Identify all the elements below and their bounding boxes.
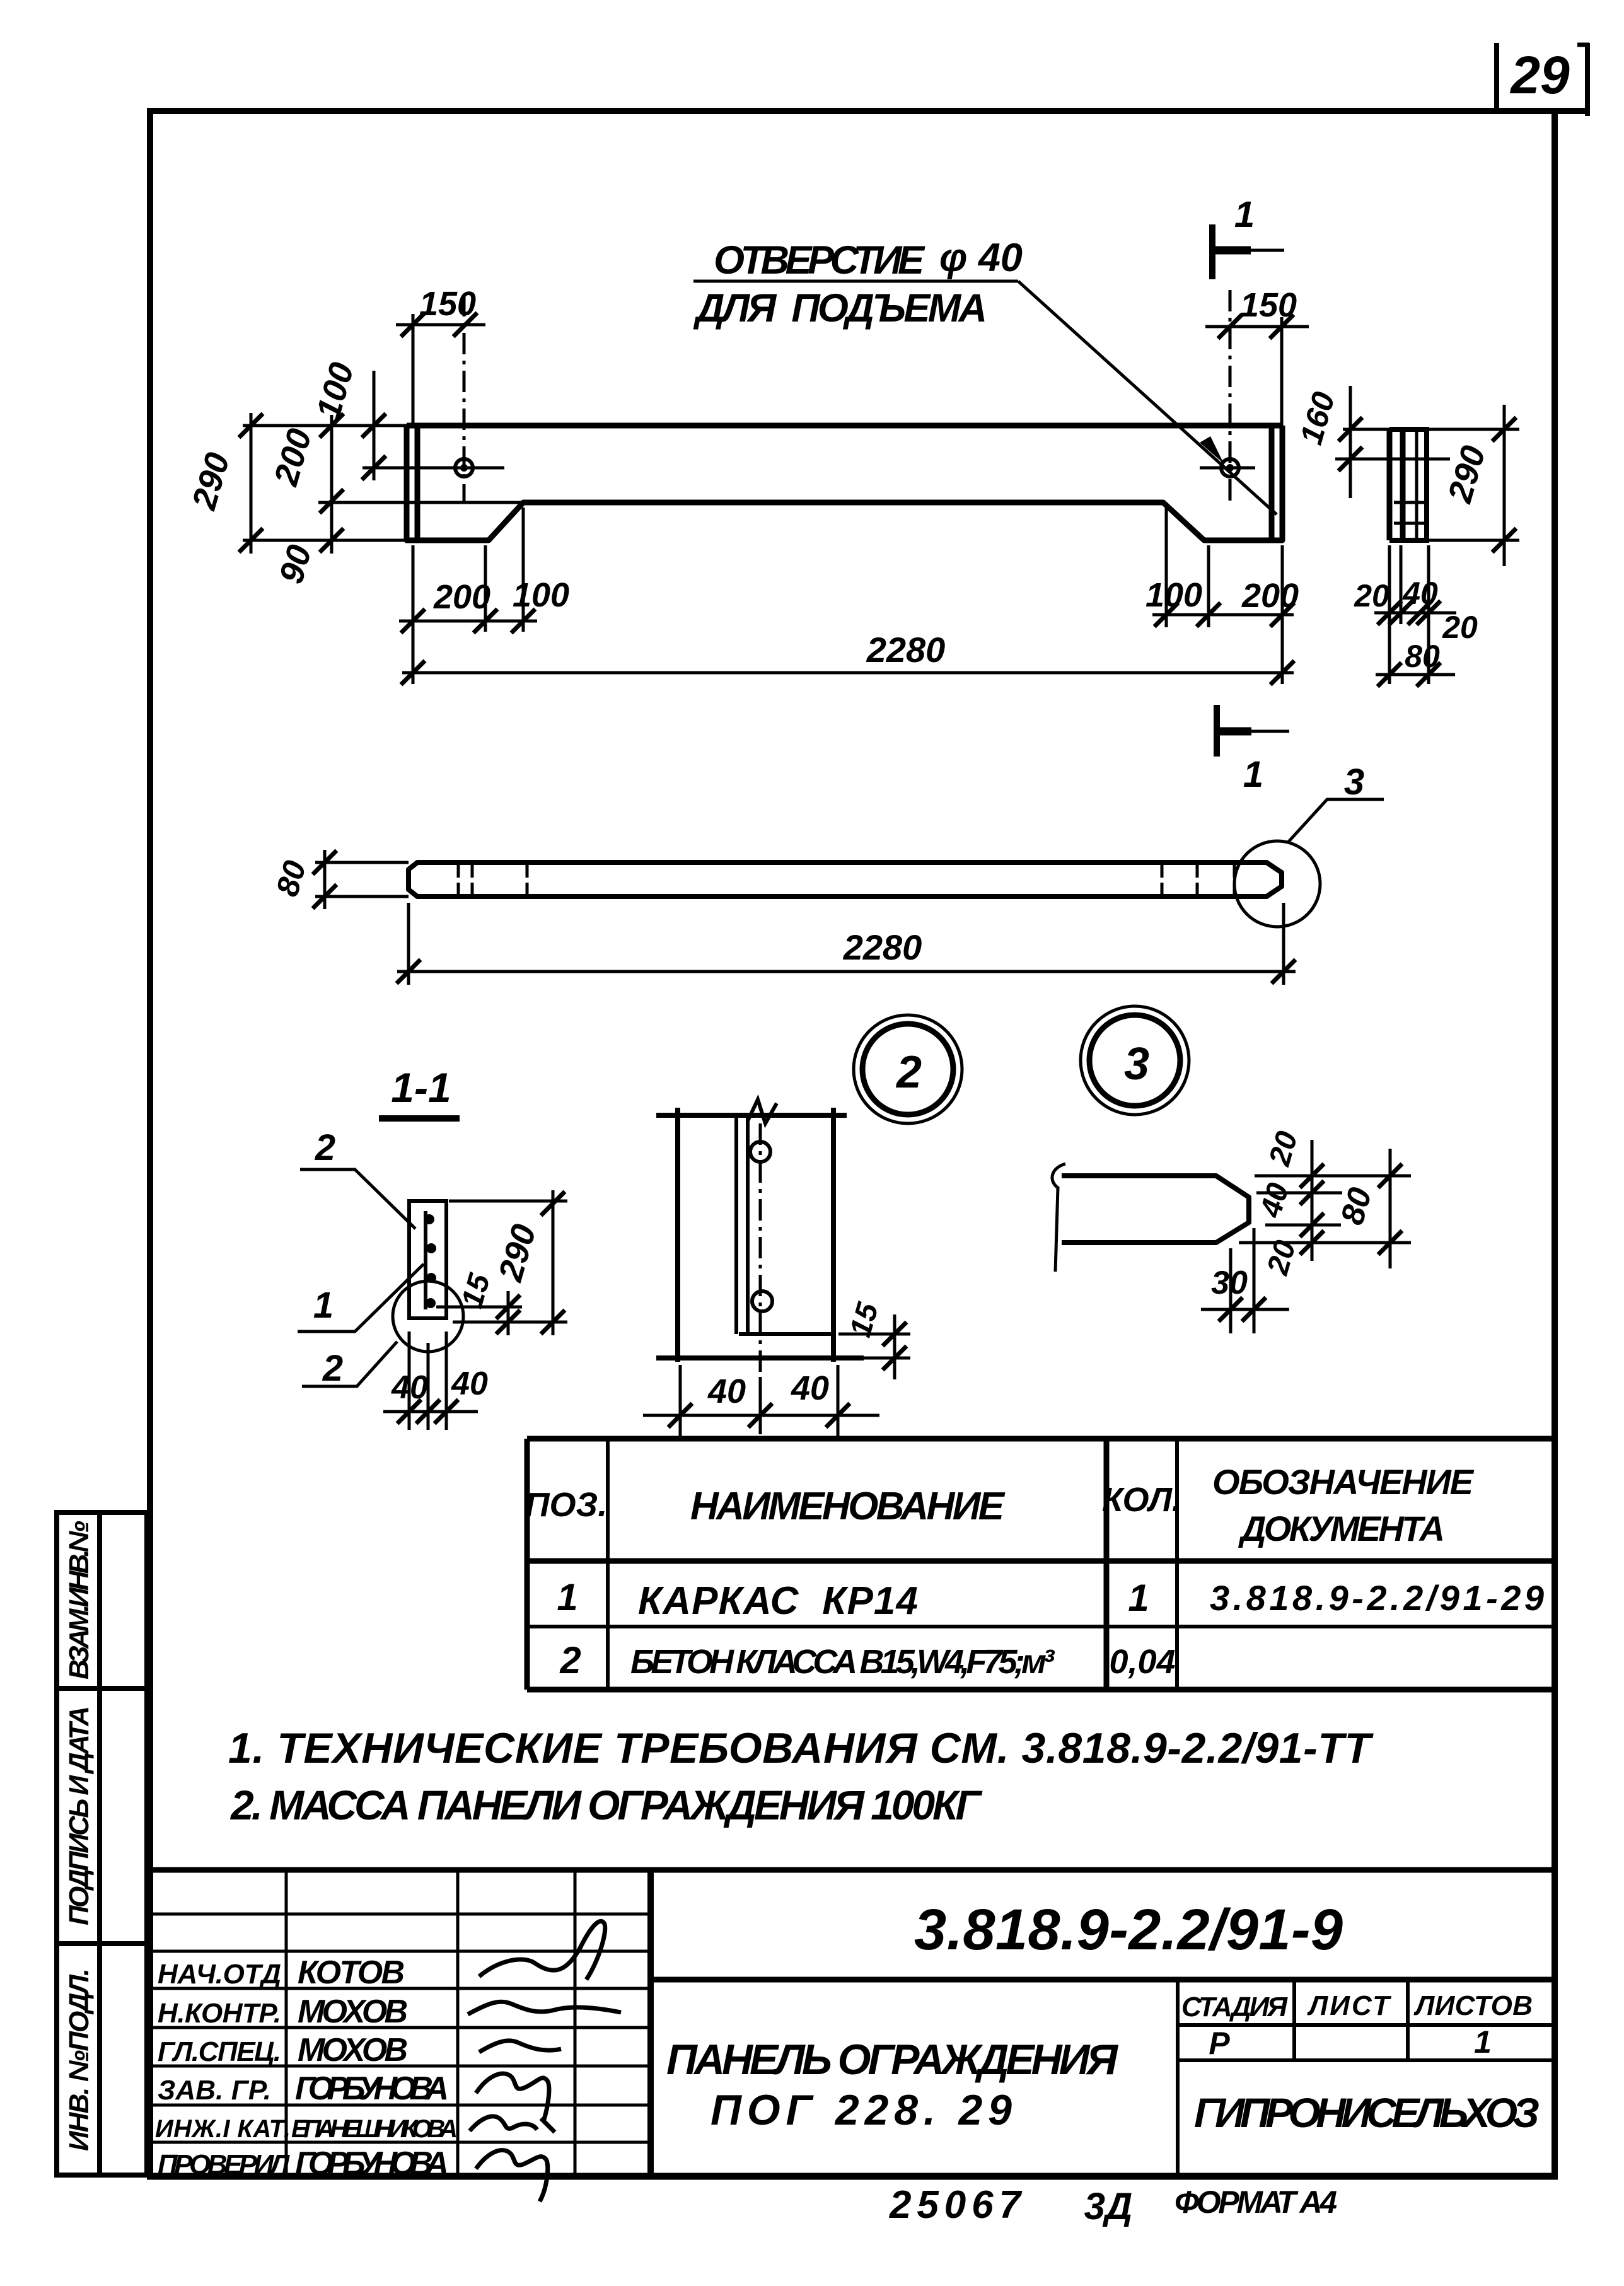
- svg-text:3.818.9-2.2/91-29: 3.818.9-2.2/91-29: [1210, 1578, 1544, 1618]
- dims 20 40 20 detail: [1239, 1140, 1411, 1261]
- svg-text:150: 150: [1240, 286, 1297, 324]
- svg-text:2: 2: [315, 1127, 335, 1168]
- dim 2280 plan: [397, 903, 1296, 985]
- panel elevation outline: [407, 426, 1282, 540]
- svg-text:1: 1: [1234, 194, 1255, 235]
- svg-text:КАРКАС КР14: КАРКАС КР14: [638, 1579, 918, 1623]
- svg-text:40: 40: [1402, 576, 1438, 611]
- dim 100 200 bottom-right: [1152, 508, 1294, 684]
- dims 40 40 section bottom: [383, 1332, 478, 1430]
- svg-text:1. ТЕХНИЧЕСКИЕ ТРЕБОВАНИЯ СМ.: 1. ТЕХНИЧЕСКИЕ ТРЕБОВАНИЯ СМ. 3.818.9-2.…: [228, 1724, 1374, 1772]
- detail circle on bar end: [1234, 841, 1320, 927]
- svg-text:ГОРБУНОВА: ГОРБУНОВА: [295, 2070, 449, 2107]
- svg-text:ЛИСТ: ЛИСТ: [1307, 1990, 1391, 2021]
- dim 80 detail: [1389, 1149, 1392, 1268]
- side view extension lines: [1335, 429, 1519, 540]
- svg-text:20: 20: [1354, 578, 1389, 613]
- svg-text:2: 2: [559, 1639, 581, 1681]
- lifting hole right: [1221, 459, 1239, 477]
- svg-text:ЗАВ. ГР.: ЗАВ. ГР.: [158, 2075, 271, 2106]
- dim 30 detail: [1201, 1228, 1289, 1333]
- svg-text:1: 1: [313, 1285, 333, 1326]
- svg-text:ГОРБУНОВА: ГОРБУНОВА: [295, 2145, 449, 2182]
- svg-text:НАЧ.ОТД: НАЧ.ОТД: [158, 1959, 281, 1990]
- stamp names: [291, 1954, 458, 2182]
- svg-text:1: 1: [1243, 754, 1263, 795]
- dim 200 100 bottom-left: [399, 508, 537, 684]
- dim 290 side: [1503, 405, 1506, 566]
- svg-text:2. МАССА ПАНЕЛИ ОГРАЖДЕНИЯ 100: 2. МАССА ПАНЕЛИ ОГРАЖДЕНИЯ 100КГ: [229, 1782, 982, 1828]
- svg-text:2280: 2280: [866, 630, 946, 670]
- svg-text:ЛИСТОВ: ЛИСТОВ: [1413, 1990, 1533, 2021]
- svg-text:БЕТОН КЛАССА В15,W4,F75;м³: БЕТОН КЛАССА В15,W4,F75;м³: [630, 1643, 1055, 1681]
- label Отверстие ф40 для подъема: [693, 236, 1023, 330]
- svg-text:2: 2: [322, 1348, 343, 1389]
- svg-text:3: 3: [1344, 762, 1364, 803]
- svg-text:ИНВ. №ПОДЛ.: ИНВ. №ПОДЛ.: [64, 1968, 95, 2151]
- svg-text:ДОКУМЕНТА: ДОКУМЕНТА: [1238, 1509, 1445, 1548]
- hole centerlines left: [416, 295, 504, 501]
- svg-text:25067: 25067: [889, 2183, 1023, 2227]
- channel centerline: [759, 1123, 762, 1377]
- components table grid: [527, 1439, 1555, 1690]
- svg-text:ПРОВЕРИЛ: ПРОВЕРИЛ: [158, 2149, 290, 2180]
- left filing strip boxes: [57, 1512, 147, 2175]
- side profile view: [1389, 429, 1429, 540]
- svg-text:Н.КОНТР.: Н.КОНТР.: [158, 1998, 281, 2029]
- section mark 1 (top): [1212, 224, 1284, 279]
- label 2 upper with leader: [300, 1169, 415, 1229]
- channel detail outline: [656, 1108, 864, 1362]
- dim 200 left: [330, 415, 333, 554]
- dims 40 40 channel bottom: [643, 1365, 879, 1436]
- detail marker circle 2: [854, 1015, 962, 1123]
- svg-text:30: 30: [1211, 1265, 1248, 1301]
- leader and label 3: [1288, 799, 1384, 842]
- svg-text:1-1: 1-1: [391, 1064, 451, 1111]
- leader to lifting hole: [1018, 281, 1277, 514]
- svg-text:80: 80: [1405, 639, 1440, 674]
- svg-text:КОТОВ: КОТОВ: [298, 1954, 405, 1991]
- section title 1-1: [379, 1064, 460, 1118]
- svg-text:29: 29: [1509, 45, 1570, 105]
- stamp job titles: [155, 1959, 291, 2180]
- rebar dots: [424, 1214, 436, 1308]
- dim 2280 overall: [402, 671, 1294, 675]
- dim 160 side: [1349, 386, 1352, 498]
- svg-text:3: 3: [1124, 1039, 1149, 1089]
- break line left: [1052, 1164, 1065, 1272]
- bar transverse dashes: [458, 865, 1234, 895]
- detail circle on section foot: [393, 1281, 463, 1352]
- svg-text:100: 100: [513, 576, 569, 614]
- svg-text:φ 40: φ 40: [939, 236, 1023, 280]
- svg-text:40: 40: [451, 1366, 488, 1402]
- svg-text:ВЗАМ.ИНВ.№: ВЗАМ.ИНВ.№: [64, 1521, 95, 1680]
- svg-text:150: 150: [419, 285, 476, 323]
- svg-text:3.818.9-2.2/91-9: 3.818.9-2.2/91-9: [914, 1898, 1343, 1962]
- rebar in section: [424, 1211, 427, 1309]
- svg-text:1: 1: [1128, 1577, 1149, 1619]
- dim 15 section: [436, 1291, 522, 1335]
- svg-text:ОТВЕРСТИЕ: ОТВЕРСТИЕ: [714, 238, 925, 282]
- svg-text:ОБОЗНАЧЕНИЕ: ОБОЗНАЧЕНИЕ: [1212, 1462, 1475, 1502]
- channel holes: [750, 1142, 770, 1162]
- section mark 1 (bottom): [1217, 705, 1289, 757]
- dim 90 left: [320, 528, 344, 552]
- svg-text:40: 40: [791, 1369, 829, 1407]
- stamp grid: [150, 1870, 651, 2176]
- dim 150 top-left: [396, 314, 485, 426]
- lifting hole left: [455, 459, 473, 477]
- extension lines left of panel: [243, 426, 523, 540]
- detail marker circle 3: [1081, 1006, 1189, 1115]
- section 1-1 concrete outline: [409, 1201, 446, 1318]
- dim 80 side bottom: [1376, 673, 1455, 676]
- svg-text:200: 200: [433, 578, 490, 616]
- svg-text:ДЛЯ ПОДЪЕМА: ДЛЯ ПОДЪЕМА: [693, 286, 987, 330]
- svg-text:2280: 2280: [843, 927, 922, 967]
- svg-text:ПАНЕЛЬ ОГРАЖДЕНИЯ: ПАНЕЛЬ ОГРАЖДЕНИЯ: [666, 2036, 1118, 2084]
- dim 100 left: [373, 371, 376, 480]
- svg-text:ФОРМАТ А4: ФОРМАТ А4: [1174, 2184, 1337, 2220]
- svg-text:3Д: 3Д: [1084, 2185, 1133, 2227]
- svg-text:МОХОВ: МОХОВ: [298, 2032, 408, 2068]
- svg-text:ГИПРОНИСЕЛЬХОЗ: ГИПРОНИСЕЛЬХОЗ: [1194, 2089, 1540, 2136]
- svg-text:МОХОВ: МОХОВ: [298, 1993, 408, 2030]
- svg-text:20: 20: [1442, 610, 1478, 645]
- svg-text:ПОЗ.: ПОЗ.: [525, 1486, 608, 1524]
- svg-text:НАИМЕНОВАНИЕ: НАИМЕНОВАНИЕ: [690, 1485, 1006, 1528]
- svg-text:1: 1: [557, 1576, 577, 1618]
- plan view bar outline: [409, 862, 1282, 896]
- dim 290 left: [250, 413, 253, 554]
- hole centerlines right: [1200, 290, 1255, 501]
- svg-text:1: 1: [1474, 2024, 1492, 2060]
- stage table grid: [1178, 1980, 1555, 2176]
- svg-text:40: 40: [391, 1369, 428, 1406]
- label 2 lower with leader: [302, 1342, 397, 1386]
- label 1 with leader: [298, 1264, 424, 1332]
- dim 290 section: [449, 1190, 567, 1335]
- break mark on channel top: [748, 1099, 777, 1123]
- svg-text:200: 200: [1241, 577, 1299, 615]
- svg-text:ЕПАНЕШНИКОВА: ЕПАНЕШНИКОВА: [291, 2115, 458, 2143]
- dims 20 40 20 side bottom: [1374, 545, 1456, 684]
- page number box 29: [1497, 43, 1589, 116]
- bar end detail outline: [1062, 1176, 1249, 1243]
- channel inner lines: [736, 1115, 833, 1334]
- svg-text:2: 2: [895, 1047, 922, 1098]
- doc number cell line: [651, 1977, 1555, 1983]
- dim 150 top-right: [1205, 317, 1309, 426]
- svg-text:ИНЖ.I КАТ.: ИНЖ.I КАТ.: [155, 2115, 291, 2143]
- dim 80 plan: [315, 850, 409, 909]
- svg-text:КОЛ.: КОЛ.: [1102, 1481, 1181, 1519]
- svg-text:100: 100: [1145, 576, 1202, 614]
- signatures: [468, 1921, 621, 2202]
- svg-text:40: 40: [707, 1372, 746, 1410]
- svg-text:Р: Р: [1209, 2026, 1230, 2061]
- svg-text:ПОДПИСЬ И ДАТА: ПОДПИСЬ И ДАТА: [64, 1706, 95, 1925]
- title block top line: [150, 1867, 1555, 1873]
- svg-text:СТАДИЯ: СТАДИЯ: [1181, 1992, 1288, 2022]
- svg-text:ГЛ.СПЕЦ.: ГЛ.СПЕЦ.: [158, 2036, 281, 2067]
- svg-text:0,04: 0,04: [1109, 1643, 1175, 1681]
- dim 15 channel: [838, 1314, 910, 1379]
